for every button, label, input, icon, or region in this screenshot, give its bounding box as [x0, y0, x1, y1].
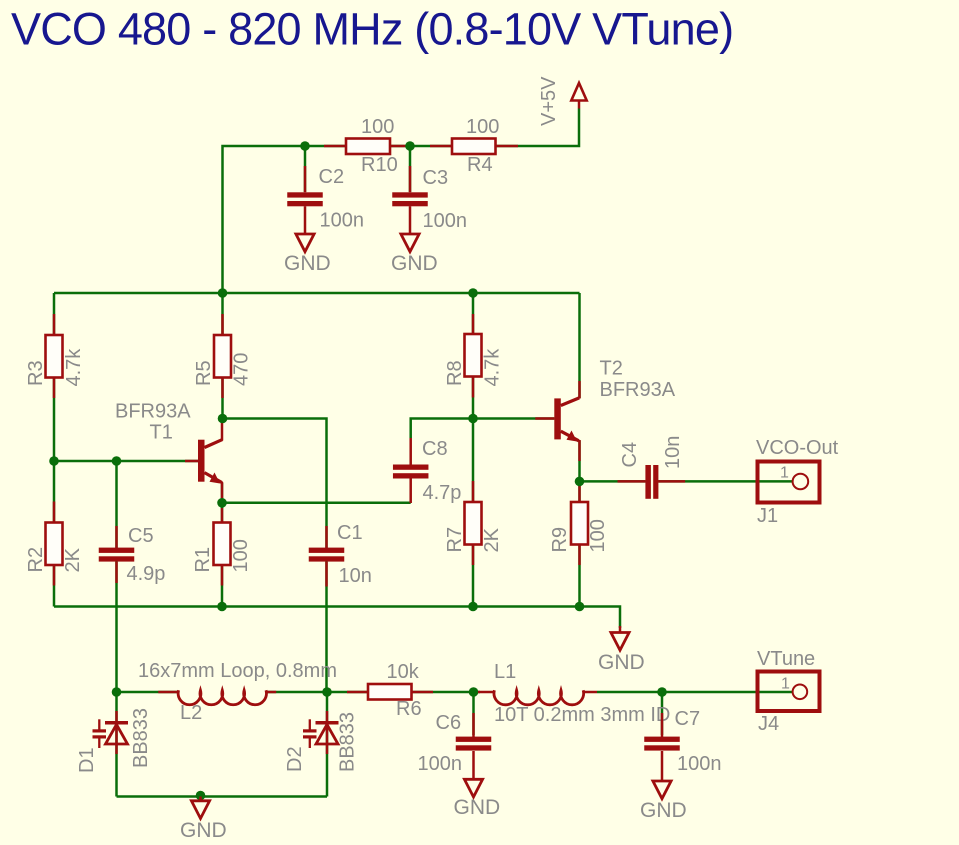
svg-text:R10: R10 [361, 154, 398, 176]
svg-text:R7: R7 [444, 527, 466, 553]
wire C1 to loop node B [325, 562, 328, 693]
wire D1 column [115, 692, 118, 797]
wire R5 column [221, 293, 224, 419]
svg-text:R9: R9 [549, 527, 571, 553]
svg-text:100: 100 [361, 116, 394, 138]
wire C5 column [115, 461, 118, 548]
capacitor C1 [309, 548, 345, 562]
junction C2 top bus [300, 141, 310, 151]
svg-text:10T 0.2mm 3mm ID: 10T 0.2mm 3mm ID [494, 704, 670, 726]
svg-text:4.9p: 4.9p [127, 563, 166, 585]
capacitor C4 pins [618, 480, 686, 483]
capacitor C1 pins [325, 526, 328, 587]
wire D2 column [326, 692, 329, 797]
svg-text:T2: T2 [600, 358, 623, 380]
wire bus3 [54, 607, 620, 629]
svg-text:C2: C2 [319, 166, 345, 188]
svg-text:4.7k: 4.7k [63, 348, 85, 387]
capacitor C2 [287, 192, 323, 206]
resistor R7 pins [472, 481, 475, 565]
svg-text:10k: 10k [387, 661, 420, 683]
resistor R8 [465, 334, 482, 377]
inductor L2 pins [158, 691, 276, 694]
svg-text:100: 100 [230, 539, 252, 572]
wire emitter row + C8 column [222, 502, 411, 505]
svg-text:4.7k: 4.7k [482, 348, 504, 387]
junction T1 collector node [218, 414, 228, 424]
resistor R2 pins [53, 502, 56, 586]
svg-text:R3: R3 [25, 360, 47, 386]
resistor R4 [452, 139, 496, 155]
inductor L2 [178, 690, 266, 704]
svg-text:4.7p: 4.7p [423, 482, 462, 504]
capacitor C5 pins [115, 526, 118, 583]
junction R1 gnd bus [217, 602, 227, 612]
resistor R3 [46, 335, 63, 378]
svg-text:V+5V: V+5V [538, 76, 560, 126]
junction C3 top bus [405, 141, 415, 151]
svg-text:100n: 100n [423, 210, 468, 232]
wire C2 drop [304, 146, 307, 192]
svg-text:D1: D1 [76, 747, 98, 773]
junction R5 bus2 [218, 288, 228, 298]
svg-text:100: 100 [466, 116, 499, 138]
wire base row T1 [54, 460, 198, 463]
svg-text:GND: GND [284, 252, 331, 275]
wire C5 to loop node A [115, 562, 118, 693]
resistor R10 pins [324, 145, 413, 148]
capacitor C6 pins [472, 713, 475, 779]
transistor T2 [535, 381, 579, 461]
capacitor C5 [99, 548, 135, 562]
junction C7 vtune line [657, 687, 667, 697]
wire R2 column [53, 461, 56, 607]
wire C4 row [580, 480, 646, 483]
svg-text:VCO-Out: VCO-Out [756, 437, 839, 459]
capacitor C7 pins [661, 713, 664, 781]
capacitor C3 pins [409, 166, 412, 234]
ground bottom [199, 797, 202, 801]
ground under C2 [296, 234, 314, 252]
resistor R6 pins [347, 691, 433, 694]
svg-text:GND: GND [391, 252, 438, 275]
wire loop bus seg3 [412, 691, 481, 694]
wire R3 column [53, 293, 56, 461]
wire bottom gnd bus [117, 795, 328, 798]
junction R3 R2 base T1 [49, 456, 59, 466]
wire C3 drop [409, 146, 412, 192]
junction R9 gnd bus [575, 602, 585, 612]
svg-text:R1: R1 [192, 547, 214, 573]
resistor R1 [214, 523, 231, 566]
wire C8 top row [411, 419, 555, 439]
wire C7 drop [661, 692, 664, 735]
wire T2 emitter R9 column [578, 441, 581, 607]
varicap D1 [115, 711, 118, 721]
svg-text:100n: 100n [677, 753, 722, 775]
svg-text:T1: T1 [150, 422, 173, 444]
svg-text:C1: C1 [337, 522, 363, 544]
supply V+5V [578, 101, 581, 109]
svg-text:1: 1 [780, 465, 789, 482]
resistor R5 [214, 335, 231, 378]
ground under C7 [653, 781, 671, 799]
wire C6 drop [472, 692, 475, 735]
svg-text:C6: C6 [436, 712, 462, 734]
svg-text:L2: L2 [180, 702, 202, 724]
ground under C3 [401, 234, 419, 252]
capacitor C7 [644, 737, 680, 751]
svg-text:2K: 2K [62, 547, 84, 572]
svg-text:10n: 10n [662, 436, 684, 469]
wire T2 collector column [578, 293, 581, 398]
junction C5 base row [112, 456, 122, 466]
svg-text:1: 1 [781, 676, 790, 693]
junction bottom gnd [196, 791, 206, 801]
wire R1 column [221, 483, 224, 607]
node A loop left [112, 687, 122, 697]
resistor R4 pins [430, 145, 518, 148]
svg-text:R8: R8 [444, 360, 466, 386]
svg-text:VTune: VTune [757, 648, 815, 670]
wire C4 to J1 [658, 480, 792, 483]
resistor R2 [46, 523, 63, 566]
wire loop bus seg1 [117, 691, 179, 694]
resistor R10 [346, 139, 390, 155]
junction R7 gnd bus [468, 602, 478, 612]
svg-text:GND: GND [640, 799, 687, 822]
resistor R5 pins [221, 314, 224, 398]
svg-text:VCO 480 - 820 MHz (0.8-10V VTu: VCO 480 - 820 MHz (0.8-10V VTune) [11, 4, 733, 55]
resistor R3 pins [53, 314, 56, 398]
resistor R8 pins [472, 314, 475, 398]
inductor L1 [494, 690, 584, 705]
junction R8 bus2 [468, 288, 478, 298]
resistor R9 [571, 502, 588, 545]
wire collector row + C1 column [223, 419, 327, 549]
svg-text:BFR93A: BFR93A [115, 401, 191, 423]
resistor R7 [465, 502, 482, 545]
wire top bus [223, 109, 580, 294]
svg-text:BB833: BB833 [337, 712, 359, 772]
svg-text:2K: 2K [481, 527, 503, 552]
svg-text:16x7mm Loop, 0.8mm: 16x7mm Loop, 0.8mm [138, 660, 337, 682]
svg-text:R6: R6 [396, 698, 422, 720]
svg-text:470: 470 [231, 353, 253, 386]
svg-text:10n: 10n [339, 565, 372, 587]
junction R8 R7 base T2 row [468, 414, 478, 424]
capacitor C4 [645, 465, 651, 499]
capacitor C2 pins [304, 166, 307, 234]
wire R8 R7 column [472, 293, 475, 607]
svg-text:100n: 100n [418, 753, 463, 775]
svg-text:C4: C4 [619, 442, 641, 468]
svg-text:R4: R4 [467, 154, 493, 176]
svg-text:J1: J1 [757, 505, 778, 527]
wire loop bus seg4 [597, 691, 793, 694]
svg-text:GND: GND [180, 819, 227, 842]
node B loop right [322, 687, 332, 697]
capacitor C6 [456, 737, 492, 751]
svg-text:100n: 100n [320, 210, 365, 232]
svg-text:L1: L1 [494, 661, 516, 683]
capacitor C8 [393, 465, 429, 479]
capacitor C3 [392, 192, 428, 206]
ground under C6 [464, 779, 482, 797]
varicap D2 [326, 711, 329, 721]
svg-text:100: 100 [587, 519, 609, 552]
transistor T1 [185, 423, 222, 498]
svg-text:R5: R5 [193, 360, 215, 386]
svg-text:C5: C5 [128, 525, 154, 547]
svg-text:GND: GND [598, 651, 645, 674]
junction T1 emitter node [217, 498, 227, 508]
wire bus2 [54, 292, 580, 295]
resistor R1 pins [221, 508, 224, 586]
connector J4 [758, 672, 820, 712]
svg-text:J4: J4 [758, 713, 779, 735]
svg-text:C8: C8 [422, 438, 448, 460]
svg-text:BB833: BB833 [130, 708, 152, 768]
svg-text:R2: R2 [25, 547, 47, 573]
junction C6 vtune line [469, 687, 479, 697]
inductor L1 pins [478, 691, 597, 694]
connector J1 [758, 462, 820, 503]
ground mid (under emitter bus) [619, 626, 622, 633]
svg-text:BFR93A: BFR93A [600, 379, 676, 401]
svg-text:C3: C3 [423, 167, 449, 189]
capacitor C8 pins [409, 438, 412, 503]
junction T2 emitter C4 R9 [575, 477, 585, 487]
svg-text:GND: GND [454, 796, 501, 819]
resistor R6 [368, 684, 412, 700]
svg-text:C7: C7 [675, 708, 701, 730]
resistor R9 pins [578, 486, 581, 565]
wire loop bus seg2 [266, 691, 368, 694]
svg-text:D2: D2 [284, 746, 306, 772]
